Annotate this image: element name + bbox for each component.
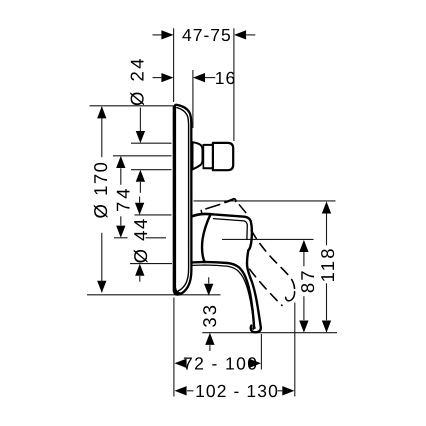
- dimension line d44 upper tail: [139, 197, 141, 203]
- arrowhead 33 top: [204, 284, 213, 296]
- arrowhead 118 bottom: [322, 321, 331, 333]
- arrowhead 16 left: [161, 73, 173, 82]
- arrowhead d170 bottom: [97, 281, 106, 293]
- handle hub bottom edge and grip inner edge: [192, 262, 254, 329]
- grip outer edge and tip foot: [247, 251, 261, 333]
- tick line dashed-handle-top y201: [194, 200, 336, 202]
- svg-text:87: 87: [297, 269, 318, 294]
- diverter knob cone: [193, 142, 203, 169]
- dimension line d170 lower: [101, 233, 103, 292]
- svg-text:47-75: 47-75: [182, 25, 232, 45]
- svg-text:33: 33: [199, 303, 220, 328]
- extension line plate-face bottom: [173, 298, 175, 397]
- dimension line d24 upper: [139, 108, 141, 132]
- svg-text:Ø 24: Ø 24: [127, 56, 148, 106]
- extension line wall-left (47-75 left): [173, 28, 175, 102]
- knob neck top edge: [203, 144, 212, 146]
- svg-text:102 - 130: 102 - 130: [195, 381, 279, 401]
- svg-text:Ø 170: Ø 170: [90, 161, 111, 219]
- tick line hub-bottom y263: [130, 263, 172, 265]
- tick line plate-top y106: [90, 105, 174, 107]
- escutcheon plate front inner line: [177, 108, 189, 291]
- svg-text:Ø 44: Ø 44: [130, 217, 151, 263]
- tick line knob-axis y156: [113, 155, 172, 157]
- dimension line 47-75 left tail: [153, 34, 162, 36]
- svg-text:118: 118: [317, 246, 338, 282]
- arrowhead 102-130 left: [175, 386, 187, 395]
- arrowhead d44 bottom: [135, 264, 144, 276]
- svg-text:72 - 100: 72 - 100: [183, 354, 258, 374]
- arrowhead d44 top: [135, 203, 144, 215]
- knob cone left face: [192, 142, 194, 169]
- arrowhead 72-100 left: [175, 359, 187, 368]
- lever top and right edge: [211, 214, 252, 250]
- knob neck bottom edge: [203, 167, 212, 169]
- dimension line 74 upper: [120, 168, 122, 185]
- extension line knob-base (16 right): [192, 70, 194, 128]
- lever left edge: [202, 214, 211, 262]
- dashed handle lower edge segment: [239, 205, 246, 213]
- extension line dashed-tip bottom: [294, 303, 296, 397]
- dashed handle upper edge segment 1: [206, 205, 220, 209]
- dimension line 47-75 right tail: [246, 34, 255, 36]
- svg-text:16: 16: [215, 68, 236, 88]
- dashed grip inner curve: [250, 269, 282, 305]
- tick line lever-pivot y239: [222, 238, 314, 240]
- arrowhead d170 top: [97, 106, 106, 118]
- dimension line 33 upper tail: [208, 277, 210, 283]
- arrowhead 87 bottom: [299, 321, 308, 333]
- dimension line 33 lower tail: [209, 345, 211, 351]
- dimension line 118 upper: [326, 214, 328, 246]
- arrowhead 47-75 left: [161, 30, 173, 39]
- arrowhead 47-75 right: [234, 30, 246, 39]
- dimension line d44 lower tail: [139, 276, 141, 282]
- svg-text:74: 74: [112, 185, 133, 212]
- dimension line d24 lower tail: [139, 182, 141, 193]
- extension line handle-tip bottom: [260, 334, 262, 370]
- knob cylinder body: [213, 143, 233, 170]
- escutcheon plate outline: [174, 105, 191, 295]
- arrowhead 87 top: [299, 240, 308, 252]
- tick line handle-axis y238 right segment: [146, 237, 167, 239]
- dimension line 74 lower: [120, 216, 122, 225]
- handle hub top edge: [192, 214, 211, 216]
- knob neck left face: [202, 145, 204, 168]
- arrowhead 72-100 right: [249, 359, 261, 368]
- knob cylinder left face groove: [212, 143, 214, 170]
- dimension line d170 upper: [101, 107, 103, 157]
- plate bottom toe: [175, 289, 181, 294]
- tick line plate-bottom y295: [87, 294, 221, 296]
- arrowhead 16 right: [193, 73, 205, 82]
- extension line knob-end (47-75 right): [233, 28, 235, 141]
- dimension line 118 lower: [326, 283, 328, 320]
- tick line hub-top y215: [135, 214, 172, 216]
- dashed grip outer curve: [251, 230, 295, 291]
- dashed hub stub: [200, 210, 203, 214]
- dashed handle tip curl: [225, 199, 236, 202]
- grip highlight line: [193, 265, 256, 328]
- lever inner highlight: [213, 219, 247, 240]
- dimension line 16 left tail: [153, 77, 162, 79]
- dimension line 102-130 left segment: [187, 390, 194, 392]
- arrowhead d24 top: [136, 131, 145, 143]
- arrowhead 33 bottom: [205, 333, 214, 345]
- dimension line 102-130 right segment: [278, 390, 283, 392]
- tick line knob-bottom y169: [131, 169, 172, 171]
- arrowhead d24 bottom: [136, 170, 145, 182]
- tick line knob-top y143: [131, 142, 172, 144]
- arrowhead 102-130 right: [282, 386, 294, 395]
- dashed tip hook: [286, 292, 295, 301]
- arrowhead 118 top: [322, 201, 331, 213]
- dimension line 87 upper: [303, 252, 305, 266]
- tick line handle-axis y238 left segment: [114, 237, 128, 239]
- arrowhead 74 bottom: [116, 226, 125, 238]
- arrowhead 74 top: [116, 156, 125, 168]
- dimension line 16 right tail: [205, 77, 215, 79]
- dashed handle upper edge segment 2: [225, 200, 232, 203]
- tick line handle-bottom y333: [202, 332, 337, 334]
- escutcheon plate back edge thick: [173, 107, 176, 291]
- dimension line 87 lower: [303, 296, 305, 320]
